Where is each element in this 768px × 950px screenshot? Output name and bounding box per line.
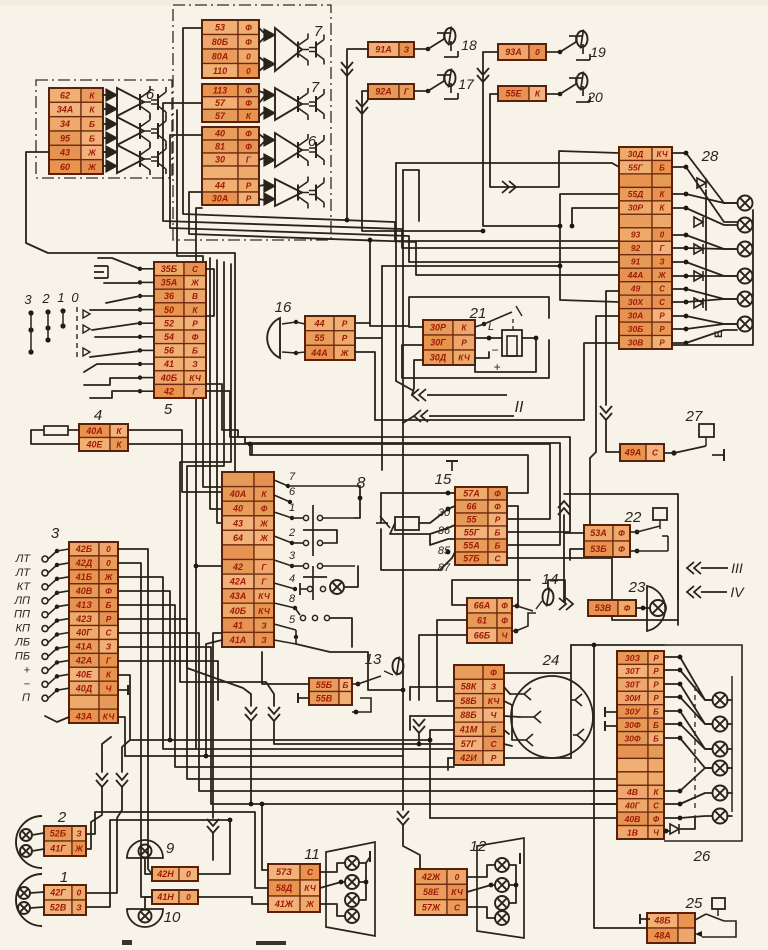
svg-text:К: К <box>116 440 122 450</box>
svg-text:43: 43 <box>232 518 243 528</box>
connection arrow right <box>502 181 516 193</box>
svg-text:41М: 41М <box>459 725 478 735</box>
junction <box>678 722 683 727</box>
svg-text:41Н: 41Н <box>156 892 174 902</box>
arrow IV <box>687 586 701 598</box>
connector block X28 <box>619 147 672 349</box>
wire <box>403 416 414 423</box>
label 18 <box>461 37 477 53</box>
svg-text:Ф: Ф <box>653 815 660 824</box>
lamp 2 of cluster 28 <box>738 218 753 233</box>
label 20 <box>586 89 603 105</box>
svg-text:19: 19 <box>590 44 606 60</box>
sound signal 1 of unit 6 <box>106 86 166 118</box>
svg-text:55Г: 55Г <box>464 528 480 538</box>
sensor box of 25 <box>712 898 725 916</box>
connection arrow down <box>477 68 489 82</box>
lamp 3 of panel 12 <box>495 896 509 910</box>
wire bundle <box>217 260 222 523</box>
switch of 22 <box>630 526 668 553</box>
svg-text:Ф: Ф <box>501 616 508 626</box>
svg-text:Б: Б <box>491 725 497 735</box>
svg-text:36: 36 <box>164 291 175 301</box>
wire left of 14 row2 <box>437 620 467 701</box>
wire net 40B5 to 55G <box>206 384 570 532</box>
wire vertical <box>402 423 404 700</box>
lamp of 14 <box>543 588 554 607</box>
connection arrow down <box>397 811 409 825</box>
svg-text:35А: 35А <box>161 278 178 288</box>
svg-text:53А: 53А <box>590 528 607 538</box>
svg-text:48Б: 48Б <box>653 916 671 926</box>
lamp 2 of panel 12 <box>495 878 509 892</box>
lamp 2a <box>20 829 32 841</box>
svg-text:Ф: Ф <box>494 489 501 499</box>
wire net 30X <box>560 226 619 302</box>
junction <box>678 655 683 660</box>
connection arrow down <box>413 719 425 733</box>
label 2 <box>57 809 67 826</box>
wire loop bottom of 21 <box>402 340 549 378</box>
junction <box>684 246 689 251</box>
terminal 30U <box>605 707 615 717</box>
lamp link 12 <box>509 865 516 903</box>
lamp 1 of cluster 28 <box>738 196 753 211</box>
svg-text:44А: 44А <box>627 270 644 280</box>
switch wire of 28 <box>672 248 737 249</box>
lamp 3 of panel 11 <box>345 893 359 907</box>
switch wire of 26 <box>664 711 712 749</box>
wire net 40E to 55 <box>128 444 550 519</box>
wire net 30V <box>584 343 619 420</box>
wire left of 14 <box>452 580 530 605</box>
switch wire of 28 <box>672 153 737 203</box>
wire net 53A left <box>564 533 584 601</box>
wire plug lead 2 <box>504 701 512 740</box>
svg-text:1В: 1В <box>627 827 638 837</box>
svg-text:53В: 53В <box>595 603 612 613</box>
label 1 <box>60 869 68 886</box>
junction <box>534 336 539 341</box>
wire net 40 <box>170 135 619 262</box>
svg-text:С: С <box>659 285 665 294</box>
svg-text:30Г: 30Г <box>430 338 446 348</box>
svg-text:53Б: 53Б <box>590 544 607 554</box>
diode VD2 of 28 <box>694 217 703 227</box>
svg-text:22: 22 <box>624 509 642 526</box>
svg-text:Р: Р <box>495 515 501 525</box>
switch wire of 26 <box>664 816 712 818</box>
svg-text:Ж: Ж <box>74 844 84 854</box>
switch arm <box>98 258 140 269</box>
wire <box>259 28 264 33</box>
wire into 24 row5 <box>430 730 454 740</box>
svg-text:18: 18 <box>461 37 477 53</box>
connector block X26 <box>617 651 664 839</box>
connection arrow down <box>116 773 128 787</box>
svg-text:3: 3 <box>24 292 32 307</box>
junction <box>678 816 683 821</box>
svg-text:Р: Р <box>653 654 659 663</box>
wire left of 13 <box>262 652 309 684</box>
wire 52V up <box>86 820 230 907</box>
wire into 24 row2 <box>410 686 454 688</box>
svg-text:К: К <box>535 89 541 99</box>
svg-text:5: 5 <box>164 401 173 418</box>
svg-text:L: L <box>488 321 494 333</box>
svg-text:57А: 57А <box>463 489 480 499</box>
switch of 13 <box>352 671 393 714</box>
wire net 30A <box>196 208 202 749</box>
wire left of 14 row3 <box>419 635 467 700</box>
svg-text:Ж: Ж <box>657 271 666 280</box>
connector block X27 <box>620 444 664 461</box>
arrow to 53V <box>559 598 573 610</box>
svg-text:С: С <box>659 298 665 307</box>
junction <box>684 233 689 238</box>
svg-text:Б: Б <box>653 708 659 717</box>
connector block X23 <box>588 600 636 616</box>
svg-text:66Б: 66Б <box>474 631 491 641</box>
junction <box>592 643 597 648</box>
switch wire of 26 <box>664 697 712 724</box>
svg-text:Ф: Ф <box>105 586 112 596</box>
wire vertical <box>395 253 397 381</box>
svg-text:48А: 48А <box>653 931 671 941</box>
svg-text:81: 81 <box>215 142 225 152</box>
svg-text:0: 0 <box>186 869 191 879</box>
label 8 <box>357 475 366 492</box>
junction <box>194 564 199 569</box>
ground bar 11 <box>369 851 371 862</box>
switch arm <box>95 336 140 338</box>
junction <box>678 802 683 807</box>
switch wire of 26 <box>664 657 712 700</box>
bus wire 40V <box>130 740 430 818</box>
junction <box>168 738 173 743</box>
lamp 5 of cluster 26 <box>713 786 728 801</box>
svg-text:30Д: 30Д <box>430 353 447 363</box>
label 7 <box>311 79 320 96</box>
svg-text:40Е: 40Е <box>85 440 103 450</box>
label II <box>515 399 524 416</box>
svg-text:43: 43 <box>59 148 70 158</box>
junction <box>364 880 369 885</box>
wire 30D <box>475 352 489 358</box>
diode of 26 <box>670 824 679 834</box>
sound signal of unit 6m upper <box>264 133 324 167</box>
label 23 <box>628 579 646 596</box>
wire 41Zh <box>320 904 345 916</box>
control lamp 18 <box>445 27 456 46</box>
wire <box>103 94 106 96</box>
svg-text:44: 44 <box>214 181 225 191</box>
junction <box>684 341 689 346</box>
lamp 4 of cluster 26 <box>713 761 728 776</box>
junction <box>428 738 433 743</box>
wire net 57A right <box>250 444 528 493</box>
wire net 40E3 <box>118 675 130 740</box>
wire <box>259 67 264 71</box>
svg-text:55Г: 55Г <box>628 162 644 172</box>
svg-text:92А: 92А <box>375 87 392 97</box>
ammeter return wire <box>475 338 536 372</box>
caption mark <box>122 940 132 945</box>
svg-text:7: 7 <box>314 23 323 40</box>
junction <box>446 507 451 512</box>
stub <box>447 758 449 770</box>
svg-text:113: 113 <box>213 86 227 96</box>
wire <box>103 123 106 125</box>
switch wire of 28 <box>672 262 737 276</box>
wire to 41G <box>86 787 102 849</box>
switch arm <box>90 309 140 311</box>
switch arm <box>90 351 140 357</box>
contact label 1 <box>289 502 295 514</box>
junction <box>678 736 683 741</box>
wire net 42Z <box>118 619 617 779</box>
lamp 6 of cluster 28 <box>738 317 753 332</box>
fuse F1 <box>31 426 79 435</box>
svg-text:55Е: 55Е <box>505 89 522 99</box>
svg-text:41Б: 41Б <box>75 572 93 582</box>
svg-text:Б: Б <box>659 163 665 172</box>
svg-text:30А: 30А <box>628 310 644 320</box>
svg-text:0: 0 <box>77 888 82 898</box>
svg-text:49: 49 <box>630 284 641 294</box>
label IV <box>730 584 745 600</box>
svg-text:93А: 93А <box>505 47 522 57</box>
switch wire of 28 <box>672 208 737 225</box>
sound signal of unit 7 lower <box>264 88 324 120</box>
svg-text:0: 0 <box>246 52 251 62</box>
lamp 1a <box>18 887 30 899</box>
wire up to 26 rail <box>570 645 572 673</box>
svg-text:Б: Б <box>495 541 501 551</box>
label 11 <box>304 846 320 863</box>
junction <box>248 442 253 447</box>
junction <box>678 789 683 794</box>
svg-text:30В: 30В <box>628 337 644 347</box>
svg-text:41Ж: 41Ж <box>274 899 294 909</box>
lamp stub to rail <box>727 767 732 769</box>
svg-text:40Б: 40Б <box>229 606 247 616</box>
svg-text:53: 53 <box>215 23 225 33</box>
junction <box>417 742 422 747</box>
svg-text:30А: 30А <box>212 194 229 204</box>
svg-text:Г: Г <box>404 87 410 97</box>
junction <box>678 682 683 687</box>
label III <box>731 560 743 576</box>
svg-text:ЛП: ЛП <box>13 595 30 607</box>
long vertical wire <box>395 163 397 253</box>
wire <box>32 849 44 851</box>
wire net 43 <box>26 152 235 472</box>
svg-text:52В: 52В <box>50 903 67 913</box>
svg-text:40Г: 40Г <box>624 801 641 811</box>
svg-text:58Б: 58Б <box>460 696 477 706</box>
contact label 7 <box>289 471 296 483</box>
contact label 8 <box>289 593 296 605</box>
svg-text:49А: 49А <box>624 448 642 458</box>
wire net 57B right <box>507 558 678 620</box>
svg-text:5: 5 <box>289 614 296 626</box>
svg-text:КЧ: КЧ <box>657 150 668 159</box>
svg-text:С: С <box>490 739 497 749</box>
contact label 6 <box>289 486 296 498</box>
pin label 30 <box>438 507 451 519</box>
svg-text:41З: 41З <box>75 600 92 610</box>
ground bar 12 <box>519 853 521 864</box>
svg-text:30Ф: 30Ф <box>624 733 641 743</box>
connection arrow down <box>600 406 612 420</box>
svg-text:91А: 91А <box>375 45 392 55</box>
wire <box>32 833 44 835</box>
wire plug lead 1 <box>504 687 510 694</box>
svg-text:КЧ: КЧ <box>488 696 501 706</box>
wire <box>30 907 44 908</box>
connector block X6m <box>202 127 259 205</box>
terminal 30F <box>605 721 615 731</box>
svg-text:С: С <box>105 628 112 638</box>
svg-text:ЛТ: ЛТ <box>15 553 32 565</box>
elbow wire <box>403 170 419 221</box>
connection arrow down <box>207 819 219 833</box>
wire <box>615 725 617 727</box>
terminal of 13 <box>298 693 308 703</box>
wire <box>103 165 106 167</box>
wire to 43A <box>45 716 69 722</box>
label 6 <box>308 133 317 150</box>
svg-text:IV: IV <box>730 584 745 600</box>
svg-text:З: З <box>261 635 267 645</box>
junction <box>684 274 689 279</box>
wire below arrow <box>250 721 252 804</box>
wire <box>103 108 106 110</box>
svg-text:57: 57 <box>215 111 226 121</box>
switch assembly of 8 <box>274 480 360 644</box>
svg-text:Р: Р <box>246 194 252 204</box>
pin label 86 <box>438 525 451 537</box>
wire plug lead 5 <box>504 744 512 746</box>
lamp 4 of cluster 28 <box>738 269 753 284</box>
switch position indicator 2 <box>41 291 50 343</box>
svg-text:Б: Б <box>192 346 198 356</box>
connector block X24 <box>454 665 504 765</box>
wire into 41Zh <box>252 897 268 904</box>
wire down to 11 <box>261 804 263 870</box>
contact label 2 <box>288 527 295 539</box>
svg-text:Б: Б <box>653 721 659 730</box>
svg-text:40: 40 <box>232 504 243 514</box>
svg-text:40А: 40А <box>85 426 103 436</box>
lamp 4 of panel 11 <box>345 909 359 923</box>
label 27 <box>685 408 703 425</box>
fuse return wire <box>31 430 79 444</box>
junction <box>664 829 669 834</box>
wire into 24 row4 <box>410 715 454 717</box>
junction <box>401 688 406 693</box>
svg-text:Б: Б <box>89 119 95 129</box>
svg-text:Ф: Ф <box>245 37 252 47</box>
svg-text:−: − <box>491 343 498 357</box>
lamp 5 of cluster 28 <box>738 292 753 307</box>
junction <box>228 818 233 823</box>
svg-text:Ф: Ф <box>501 601 508 611</box>
svg-text:С: С <box>494 554 501 564</box>
svg-text:С: С <box>454 903 461 913</box>
wire to 42G <box>86 787 122 893</box>
wire net 30A-28 <box>590 316 619 525</box>
svg-text:44: 44 <box>313 319 324 329</box>
svg-text:Ф: Ф <box>245 86 252 96</box>
junction <box>249 802 254 807</box>
arrow III <box>687 562 701 574</box>
connector block X22 <box>584 525 630 557</box>
svg-text:ЛТ: ЛТ <box>15 567 32 579</box>
svg-text:Ж: Ж <box>190 278 200 288</box>
wire <box>259 91 264 93</box>
label 15 <box>435 471 452 488</box>
svg-text:Р: Р <box>342 333 348 343</box>
wire net 55G-28 <box>396 163 619 167</box>
junction <box>339 880 344 885</box>
switch wire of 28 <box>672 289 737 299</box>
stub <box>251 444 253 455</box>
long vertical wire <box>402 170 404 423</box>
lamp wire <box>344 566 358 587</box>
wire 58E <box>467 885 495 892</box>
svg-text:З: З <box>106 642 112 652</box>
label 22 <box>624 509 642 526</box>
switch wire <box>355 486 360 518</box>
connector block X18 <box>368 42 414 57</box>
control lamp 17 <box>445 69 456 88</box>
svg-text:0: 0 <box>106 544 111 554</box>
junction <box>204 754 209 759</box>
lamp of 13 <box>393 657 404 676</box>
wire to ammeter <box>475 337 502 339</box>
svg-text:КЧ: КЧ <box>451 887 464 897</box>
svg-text:9: 9 <box>166 840 175 857</box>
svg-text:40В: 40В <box>624 814 641 824</box>
svg-text:40Е: 40Е <box>75 670 93 680</box>
wire plug lead 3 <box>504 716 520 717</box>
svg-text:80Б: 80Б <box>212 37 229 47</box>
svg-text:Г: Г <box>246 155 252 165</box>
lamp 3 of cluster 26 <box>713 742 728 757</box>
svg-text:КТ: КТ <box>17 581 31 593</box>
unit boundary (relay unit 6) <box>36 80 172 178</box>
wire net 93A <box>483 52 619 226</box>
lamp panel 11 <box>326 842 375 936</box>
svg-text:44А: 44А <box>310 348 328 358</box>
wire <box>636 607 650 609</box>
diode VD5 of 28 <box>694 298 703 308</box>
wire down to 25 <box>594 645 647 928</box>
svg-text:2: 2 <box>288 527 295 539</box>
svg-text:34: 34 <box>60 119 70 129</box>
svg-text:Ч: Ч <box>653 828 659 837</box>
lamp 1 of panel 11 <box>345 856 359 870</box>
svg-text:Ж: Ж <box>259 518 269 528</box>
svg-text:0: 0 <box>106 558 111 568</box>
svg-text:21: 21 <box>469 305 487 322</box>
switch wire of 28 <box>672 324 737 329</box>
svg-text:80А: 80А <box>212 52 229 62</box>
svg-text:Р: Р <box>653 694 659 703</box>
svg-text:Р: Р <box>659 338 665 347</box>
